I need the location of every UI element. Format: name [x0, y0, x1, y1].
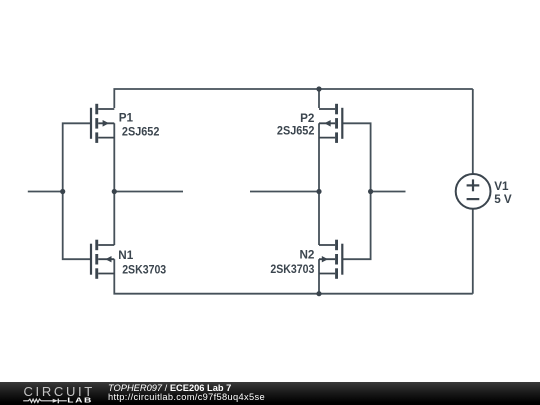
wire left output stub	[114, 191, 183, 193]
wire right output stub	[250, 191, 319, 193]
wire right gate column	[342, 123, 370, 259]
wire top rail	[114, 89, 473, 108]
footer title text	[108, 384, 265, 403]
svg-text:5 V: 5 V	[494, 193, 512, 206]
wire right column top	[318, 89, 320, 108]
node junction right gate	[368, 189, 373, 194]
wire right half-bridge column	[318, 123, 320, 245]
svg-text:2SK3703: 2SK3703	[122, 263, 166, 276]
node junction bottom rail	[316, 291, 321, 296]
node junction top rail	[316, 86, 321, 91]
svg-text:P1: P1	[119, 112, 134, 125]
svg-text:N1: N1	[118, 249, 133, 262]
voltage source V1	[456, 174, 491, 209]
wire left column lower	[113, 259, 115, 274]
wire V1 bottom	[472, 209, 474, 294]
footer bar	[0, 382, 540, 405]
node junction left output	[112, 189, 117, 194]
wire right column bottom	[318, 274, 320, 294]
svg-text:N2: N2	[299, 249, 314, 262]
svg-text:V1: V1	[494, 180, 509, 193]
svg-text:LAB: LAB	[67, 396, 93, 404]
svg-text:P2: P2	[300, 112, 315, 125]
svg-text:2SJ652: 2SJ652	[122, 126, 160, 139]
node junction right output	[316, 189, 321, 194]
transistor P1 (2SJ652)	[91, 104, 114, 143]
svg-text:2SJ652: 2SJ652	[277, 125, 315, 138]
wire right gate stub	[371, 191, 406, 193]
svg-text:2SK3703: 2SK3703	[270, 263, 314, 276]
wire left input stub	[28, 191, 63, 193]
wire left gate column	[63, 123, 91, 259]
transistor N1 (2SK3703)	[91, 240, 114, 279]
wire bottom rail	[114, 274, 473, 294]
wire V1 top	[472, 89, 474, 174]
node junction left gate	[60, 189, 65, 194]
wire right column lower	[318, 259, 320, 274]
wire left half-bridge column	[113, 123, 115, 245]
transistor P2 (2SJ652, mirrored)	[319, 104, 342, 143]
transistor N2 (2SK3703, mirrored)	[319, 240, 342, 279]
CircuitLab logo	[22, 382, 122, 405]
